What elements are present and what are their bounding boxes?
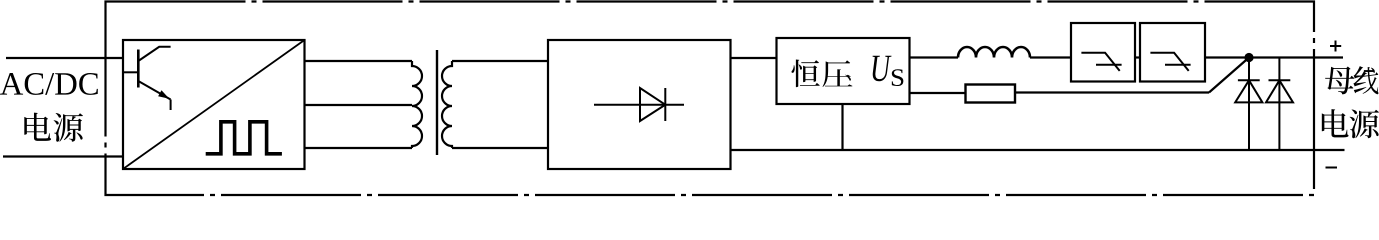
resistor R1 xyxy=(966,85,1016,103)
minus terminal mark xyxy=(1326,167,1338,169)
label U_S xyxy=(873,56,892,82)
wire between limiter blocks xyxy=(1135,56,1140,58)
wire primary bottom xyxy=(305,147,413,149)
wire limiter 2 to + output xyxy=(1205,56,1343,58)
wire sense diagonal to junction xyxy=(1209,58,1249,93)
wire resistor to junction (horizontal) xyxy=(1015,91,1209,93)
label 源 (left 电源) xyxy=(54,113,83,142)
rectifier diode symbol D0 xyxy=(594,88,684,121)
transformer T1 primary winding xyxy=(412,61,422,148)
label 恒 xyxy=(791,59,819,87)
label 压 xyxy=(823,60,853,87)
transformer T1 core xyxy=(436,50,438,155)
wire primary top xyxy=(305,60,413,62)
square-wave PWM symbol xyxy=(206,122,282,154)
constant-voltage regulator block 恒压 xyxy=(777,38,910,104)
current limiter block 2 xyxy=(1140,23,1205,82)
wire primary center tap xyxy=(305,104,413,106)
wire AC input top xyxy=(6,57,123,59)
plus terminal mark xyxy=(1330,41,1341,52)
wire regulator bottom tap xyxy=(841,104,843,150)
enclosure dash-dot boundary frame xyxy=(106,2,1315,196)
current limiter block 1 xyxy=(1071,23,1135,82)
diode D1 xyxy=(1235,58,1262,151)
label 母 (母线) xyxy=(1325,66,1354,94)
diode D2 xyxy=(1266,58,1293,151)
wire secondary bottom xyxy=(452,147,548,149)
transistor Q1 symbol xyxy=(123,47,171,110)
wire AC input bottom xyxy=(3,155,123,157)
label AC/DC source text xyxy=(0,73,98,95)
label 线 (母线) xyxy=(1353,66,1378,94)
wire regulator sense output xyxy=(910,92,966,94)
converter diagonal divider xyxy=(123,40,305,169)
limiter 2 characteristic symbol xyxy=(1150,53,1190,71)
transformer T1 secondary winding xyxy=(442,61,452,148)
label 电 (left 电源) xyxy=(24,113,51,141)
wire secondary top xyxy=(452,60,548,62)
wire regulator output to inductor xyxy=(910,56,959,58)
label 电 (right 电源) xyxy=(1322,109,1349,137)
wire inductor to limiter 1 xyxy=(1030,56,1071,58)
wire bottom return rail xyxy=(731,149,1345,151)
rectifier block xyxy=(548,40,731,169)
limiter 1 characteristic symbol xyxy=(1081,53,1121,71)
wire rectifier output to regulator xyxy=(731,57,777,59)
junction node dot xyxy=(1244,53,1253,62)
label 源 (right 电源) xyxy=(1350,109,1379,138)
inductor L1 xyxy=(958,47,1030,58)
DC/DC converter block U1 xyxy=(123,40,305,169)
